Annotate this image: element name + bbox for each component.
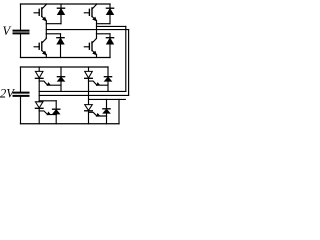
wire: cell2 left rail upper [20,67,22,93]
wire: lower-right spine top [96,34,98,38]
wire: lower-right emitter to bus [96,55,98,58]
wire: cell2 top bus [21,66,109,68]
diode D3 (lower-left) [57,34,64,58]
wire: cell2 bottom bus [21,123,120,125]
diode D2 (upper-right) [106,4,113,24]
diode D4 (lower-right) [106,34,113,58]
wire: lower-left emitter to bus [45,55,47,58]
wire: cell1 left rail upper [20,4,22,31]
wire: cell1 left rail lower [20,33,22,57]
wire: cell1 output B through-wire [46,29,128,31]
source 2V (capacitor bars) [14,93,29,96]
wire: lower-right junction [89,98,126,100]
thyristor T2 (upper-right GTO) [85,67,108,105]
diode D5 (upper-left) [57,67,64,91]
diode D7 (lower-left) [53,101,60,124]
svg-text:2V: 2V [0,86,15,100]
thyristor T4 (lower-right GTO) [85,105,107,124]
wire: cell2 output A junction wire [39,90,126,92]
wire: lower-left diode junction [46,33,60,35]
wire: cell2 bottom-right vertical [118,99,120,123]
source V (capacitor bars) [14,31,29,34]
wire: lower-right diode junction [97,33,111,35]
wire: upper-left diode junction [46,23,61,25]
transistor S2 (IGBT upper-right) [84,4,96,21]
thyristor T3 (lower-left GTO) [35,102,56,124]
transistor S4 (IGBT lower-right) [84,38,96,55]
wire: cascade vertical B [128,30,130,96]
wire: upper-right diode junction [97,23,111,25]
wire: cascade vertical A [125,26,127,91]
diode D6 (upper-right) [104,67,111,91]
wire: cell2 output B through-wire [39,94,128,96]
transistor S3 (IGBT lower-left) [34,38,46,55]
wire: lower-left junction [39,100,56,102]
wire: left leg spine [45,21,47,34]
thyristor T1 (upper-left GTO) [35,67,61,102]
wire: cell1 bottom bus [21,57,111,59]
transistor S1 (IGBT upper-left) [34,4,46,21]
wire: lower-left spine top [45,34,47,38]
wire: cell2 left rail lower [20,96,22,124]
diode D8 (lower-right) [103,99,110,123]
diode D1 (upper-left) [57,4,64,24]
wire: right leg spine [96,21,98,34]
wire: cell1 top bus [21,3,111,5]
wire: cell1 output A [97,25,126,27]
